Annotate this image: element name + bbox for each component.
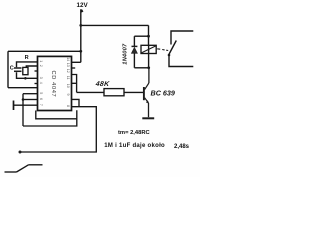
pin tick left y71 xyxy=(35,70,38,72)
relay K1 coil box xyxy=(141,45,156,53)
wire output to 48K resistor xyxy=(77,91,104,93)
node contact pivot dot xyxy=(168,54,171,57)
node junction dot collector xyxy=(147,66,150,69)
wire 12V top blob xyxy=(81,10,82,12)
wire diode bottom join xyxy=(134,67,148,69)
wire contact bottom lead xyxy=(169,55,193,67)
wire down-right run xyxy=(20,107,96,152)
node junction dot rail/12V xyxy=(79,24,82,27)
svg-text:9: 9 xyxy=(66,94,70,96)
wire inner loop step xyxy=(36,111,77,119)
svg-text:12: 12 xyxy=(66,69,70,73)
wire pin7 to terminal xyxy=(14,104,38,106)
emitter lead with arrow xyxy=(145,98,149,103)
wire 48K to base xyxy=(124,91,143,93)
wire coil through-lead xyxy=(148,45,150,53)
wire pins567 junction vertical xyxy=(22,94,24,126)
svg-text:C: C xyxy=(10,65,14,71)
svg-text:6: 6 xyxy=(39,98,43,100)
svg-text:14: 14 xyxy=(66,57,70,61)
svg-text:1: 1 xyxy=(39,60,43,62)
svg-text:11: 11 xyxy=(66,76,70,80)
wire diode bottom lead xyxy=(133,53,135,68)
wire switch left lead xyxy=(5,171,17,173)
wire pin out to 48K (upper) xyxy=(71,75,76,93)
wire bottom loop xyxy=(23,110,77,126)
svg-text:tm= 2,48RC: tm= 2,48RC xyxy=(118,130,151,136)
diode D1 1N4007 symbol xyxy=(131,46,137,53)
switch S (bottom-left annotation) xyxy=(5,165,43,172)
wire diode top tee xyxy=(134,35,148,37)
svg-text:48K: 48K xyxy=(94,81,110,88)
base bar xyxy=(143,87,145,100)
svg-text:BC 639: BC 639 xyxy=(151,88,175,97)
wire pin9 jog xyxy=(71,99,79,106)
wire top supply rail xyxy=(81,24,149,26)
svg-text:3: 3 xyxy=(39,77,43,79)
IC pin ticks and wires xyxy=(14,68,144,154)
wire pin2 to resistor top xyxy=(26,66,37,67)
svg-text:12V: 12V xyxy=(77,2,89,9)
node terminal dot bottom xyxy=(19,151,22,154)
svg-text:2: 2 xyxy=(39,65,43,67)
wire 12V to IC pin (top right) xyxy=(71,61,81,63)
wire switch right lead xyxy=(29,164,43,166)
IC U1 CD4047 body xyxy=(38,56,72,110)
svg-text:7: 7 xyxy=(39,104,43,106)
node junction dot pins567 xyxy=(22,98,25,101)
wire pin5 xyxy=(23,93,38,95)
wire pin1 to capacitor top xyxy=(17,62,38,67)
resistor 48K body xyxy=(104,89,124,96)
capacitor C xyxy=(14,68,22,71)
wire mechanical dashed link xyxy=(157,49,168,51)
wire RC box left xyxy=(7,51,9,87)
svg-text:13: 13 xyxy=(66,63,70,67)
pin tick right y68 xyxy=(71,67,75,69)
terminal T bar xyxy=(13,101,15,111)
svg-text:10: 10 xyxy=(66,84,70,88)
transistor Q1 BC639 xyxy=(142,68,154,119)
svg-text:2,48s: 2,48s xyxy=(174,144,190,150)
svg-text:5: 5 xyxy=(39,92,43,94)
wire pin3 RC bottom xyxy=(17,72,38,78)
wire relay coil bottom lead xyxy=(148,54,150,68)
wire pin6 xyxy=(23,99,38,101)
svg-text:8: 8 xyxy=(66,105,70,107)
node junction dot RC-box top xyxy=(79,50,82,53)
svg-text:1N4007: 1N4007 xyxy=(123,43,129,65)
wire switch blade xyxy=(17,165,29,172)
resistor R (box) xyxy=(23,67,28,74)
wire RC box top xyxy=(8,50,81,52)
svg-text:1M i 1uF daje około: 1M i 1uF daje około xyxy=(104,143,165,149)
wire contact top lead xyxy=(171,31,193,45)
relay contact (right) xyxy=(168,31,194,67)
wire 12V vertical drop xyxy=(80,9,82,62)
wire contact arm xyxy=(169,41,177,56)
svg-text:4: 4 xyxy=(39,82,43,84)
pin numbers right column xyxy=(66,57,70,107)
svg-text:CD 4047: CD 4047 xyxy=(50,71,56,98)
wire RC box bottom to pin xyxy=(8,87,38,89)
wire diode top lead xyxy=(133,36,135,46)
RC timing network outer box wires xyxy=(8,51,81,87)
wire pin out joining (lower) xyxy=(71,82,76,84)
node junction dot diode tee xyxy=(147,35,150,38)
node junction dot resistor bottom xyxy=(24,77,27,80)
wire relay branch vertical xyxy=(148,25,150,45)
pin tick left y83.5 xyxy=(35,83,38,85)
svg-text:R: R xyxy=(25,55,29,61)
ground bar xyxy=(142,117,154,119)
pin numbers left column xyxy=(39,60,43,105)
collector lead xyxy=(148,68,150,83)
